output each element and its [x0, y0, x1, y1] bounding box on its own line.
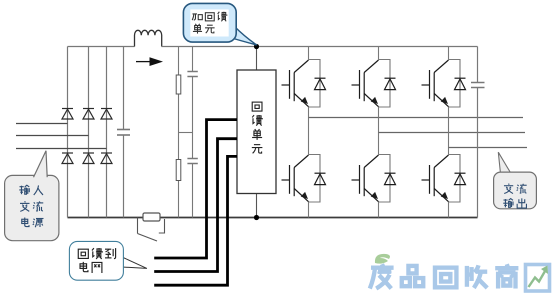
transistor Q2 with diode (top) — [352, 60, 396, 108]
watermark leaf — [375, 254, 390, 264]
switch S1 blade — [138, 234, 158, 242]
wire bottom DC bus — [68, 217, 478, 219]
transistor Q1 with diode (top) — [282, 60, 326, 108]
callout: 交流输出 (right) — [494, 152, 537, 209]
diode D1 upper — [62, 109, 73, 120]
inductor L1 on top bus — [135, 30, 162, 46]
switch S1 pole wire — [137, 218, 139, 234]
wire AC output phase 2 — [379, 132, 526, 134]
wire inverter leg 1 upper stub — [308, 47, 310, 60]
wire rectifier leg 2 — [88, 47, 90, 218]
wire feedback phase 2 (thick) — [154, 139, 237, 272]
feedback unit U1 box — [237, 70, 276, 194]
callout: 输入交流电源 (left) — [5, 151, 59, 241]
capacitor C3 lower bus — [187, 158, 197, 160]
wire AC input phase 2 — [16, 135, 89, 137]
diode D6 lower — [101, 153, 112, 164]
wire AC input phase 1 — [16, 123, 68, 125]
wire AC output phase 3 — [449, 147, 528, 149]
transistor Q4 with diode (bottom) — [282, 155, 326, 203]
wire inverter leg 2 lower stub — [378, 202, 380, 218]
transistor Q6 with diode (bottom) — [422, 155, 466, 203]
callout: 加回馈单元 (top) — [183, 3, 256, 45]
wire inverter leg 2 middle — [378, 107, 380, 155]
wire inverter leg 3 middle — [448, 107, 450, 155]
resistor R3 brake on bottom bus — [143, 213, 160, 221]
capacitor C1 DC link — [117, 47, 130, 218]
wire inverter leg 2 upper stub — [378, 47, 380, 60]
diode D5 lower — [83, 153, 94, 164]
node junction top bus — [254, 44, 259, 49]
wire feedback phase 1 (thick) — [154, 120, 237, 258]
wire inverter leg 3 lower stub — [448, 202, 450, 218]
diode D2 upper — [83, 109, 94, 120]
watermark logo text 废品回收商 — [370, 264, 519, 288]
wire inverter leg 1 middle — [308, 107, 310, 155]
switch S1 contact hook — [159, 219, 165, 233]
transistor Q5 with diode (bottom) — [352, 155, 396, 203]
wire feedback phase 3 (thick) — [154, 156, 237, 285]
wire divider midpoint link — [179, 132, 193, 134]
watermark chart logo square — [526, 265, 550, 292]
wire inverter leg 1 lower stub — [308, 202, 310, 218]
wire feedback unit top lead — [256, 47, 258, 71]
diode D3 upper — [101, 109, 112, 120]
wire AC input phase 3 — [16, 148, 107, 150]
current direction arrow — [136, 57, 163, 66]
feedback unit label 回馈单元 — [252, 102, 263, 153]
callout: 回馈到电网 (bottom) — [69, 241, 146, 280]
capacitor C4 output side — [471, 47, 485, 218]
wire feedback unit bottom lead — [256, 194, 258, 218]
transistor Q3 with diode (top) — [422, 60, 466, 108]
node junction bottom bus — [254, 215, 259, 220]
wire AC output phase 1 — [309, 117, 524, 119]
resistor R1 upper balancing — [178, 47, 180, 218]
diode D4 lower — [62, 153, 73, 164]
wire top DC bus left segment — [68, 46, 135, 48]
wire top DC bus right segment — [162, 46, 478, 48]
wire rectifier leg 3 — [106, 47, 108, 218]
wire rectifier leg 1 — [67, 47, 69, 218]
resistor R2 lower balancing — [176, 160, 181, 181]
wire inverter leg 3 upper stub — [448, 47, 450, 60]
capacitor C2 upper bus — [187, 47, 197, 218]
